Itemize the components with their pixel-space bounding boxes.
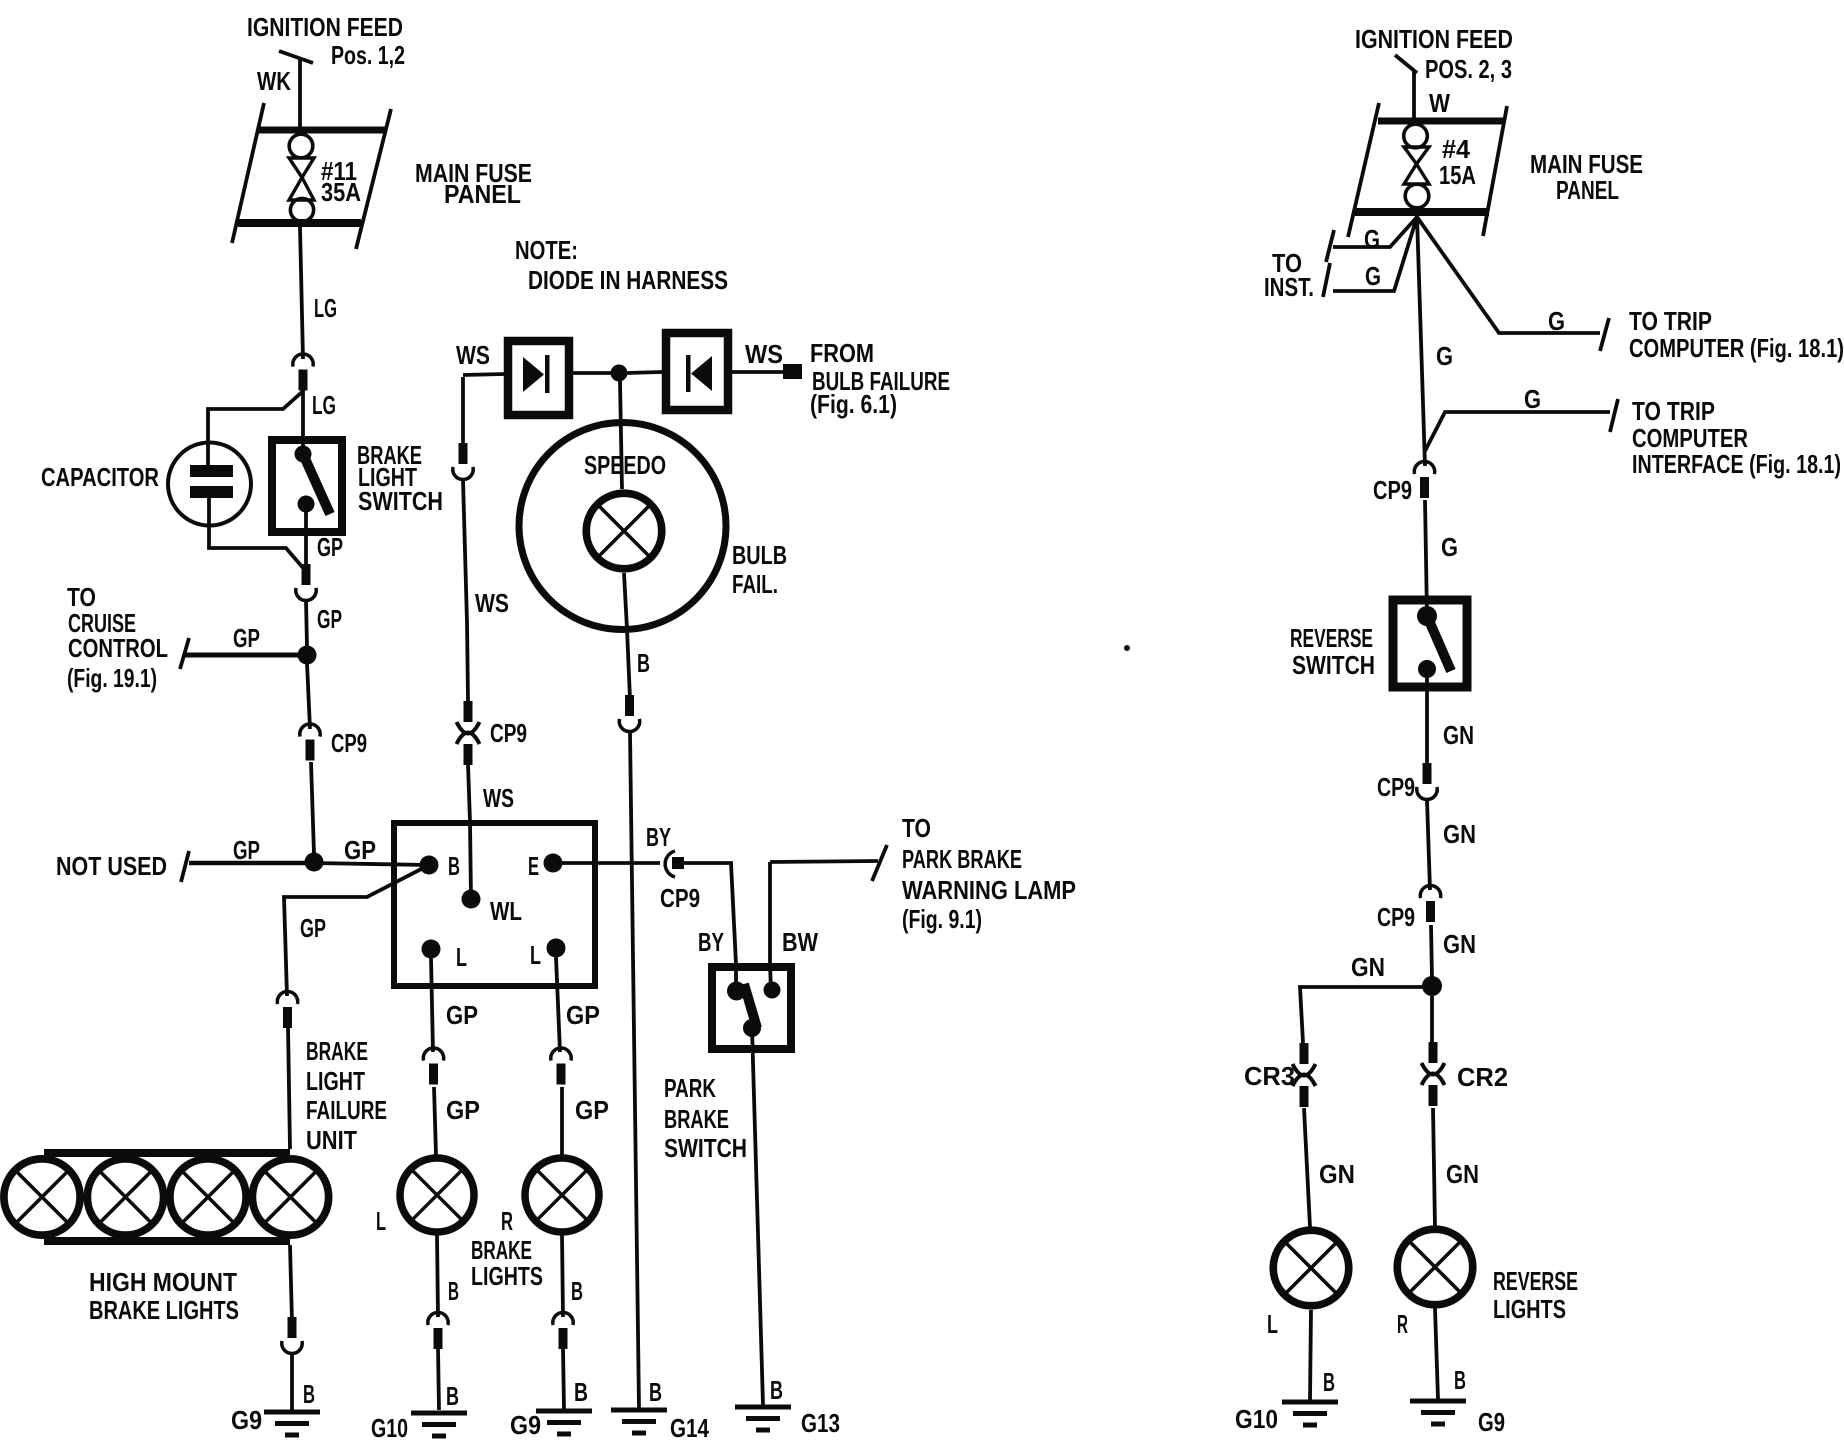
svg-text:G9: G9 bbox=[1478, 1407, 1505, 1437]
svg-text:CR3: CR3 bbox=[1244, 1061, 1295, 1091]
svg-text:DIODE IN HARNESS: DIODE IN HARNESS bbox=[528, 265, 728, 295]
svg-text:B: B bbox=[574, 1377, 588, 1407]
svg-text:G: G bbox=[1364, 224, 1380, 254]
svg-text:GP: GP bbox=[317, 532, 343, 562]
svg-text:FAIL.: FAIL. bbox=[732, 569, 778, 599]
svg-text:GN: GN bbox=[1443, 929, 1476, 959]
svg-text:SPEEDO: SPEEDO bbox=[584, 450, 666, 480]
svg-text:LIGHTS: LIGHTS bbox=[1493, 1294, 1566, 1324]
svg-text:G10: G10 bbox=[371, 1413, 408, 1440]
svg-text:COMPUTER (Fig. 18.1): COMPUTER (Fig. 18.1) bbox=[1629, 333, 1844, 363]
svg-text:REVERSE: REVERSE bbox=[1493, 1266, 1578, 1296]
svg-text:GN: GN bbox=[1443, 819, 1476, 849]
svg-text:NOTE:: NOTE: bbox=[515, 235, 578, 265]
svg-text:WS: WS bbox=[456, 340, 490, 370]
svg-text:GP: GP bbox=[575, 1095, 609, 1125]
svg-text:GN: GN bbox=[1443, 720, 1474, 750]
svg-text:INTERFACE (Fig. 18.1): INTERFACE (Fig. 18.1) bbox=[1632, 449, 1841, 479]
svg-text:G14: G14 bbox=[670, 1413, 709, 1440]
svg-text:B: B bbox=[770, 1375, 783, 1405]
svg-text:LG: LG bbox=[312, 390, 336, 420]
svg-text:B: B bbox=[1323, 1367, 1335, 1397]
svg-text:GP: GP bbox=[233, 835, 260, 865]
svg-text:L: L bbox=[1267, 1309, 1278, 1339]
svg-text:R: R bbox=[501, 1206, 513, 1236]
svg-text:BY: BY bbox=[646, 822, 671, 852]
svg-text:TO TRIP: TO TRIP bbox=[1629, 306, 1712, 336]
svg-text:G10: G10 bbox=[1235, 1404, 1278, 1434]
svg-text:PANEL: PANEL bbox=[1556, 175, 1619, 205]
svg-text:IGNITION FEED: IGNITION FEED bbox=[1355, 24, 1513, 54]
svg-text:L: L bbox=[530, 940, 541, 970]
svg-text:POS. 2, 3: POS. 2, 3 bbox=[1425, 54, 1512, 84]
svg-text:W: W bbox=[1429, 88, 1450, 118]
svg-text:CR2: CR2 bbox=[1457, 1062, 1508, 1092]
svg-text:G: G bbox=[1548, 306, 1565, 336]
svg-text:BW: BW bbox=[782, 927, 818, 957]
svg-text:B: B bbox=[303, 1379, 315, 1409]
svg-text:B: B bbox=[448, 1276, 459, 1306]
svg-text:CP9: CP9 bbox=[1373, 475, 1412, 505]
svg-text:GN: GN bbox=[1319, 1159, 1355, 1189]
svg-text:Pos. 1,2: Pos. 1,2 bbox=[331, 40, 405, 70]
svg-text:CONTROL: CONTROL bbox=[68, 633, 168, 663]
svg-text:B: B bbox=[446, 1381, 459, 1411]
svg-text:BRAKE: BRAKE bbox=[306, 1036, 368, 1066]
svg-text:B: B bbox=[637, 648, 650, 678]
svg-text:GP: GP bbox=[566, 1000, 600, 1030]
svg-text:L: L bbox=[376, 1206, 386, 1236]
svg-text:L: L bbox=[456, 942, 467, 972]
svg-text:CP9: CP9 bbox=[1377, 902, 1415, 932]
svg-text:LIGHTS: LIGHTS bbox=[471, 1261, 543, 1291]
svg-text:GP: GP bbox=[446, 1095, 480, 1125]
svg-text:INST.: INST. bbox=[1264, 272, 1314, 302]
svg-text:CP9: CP9 bbox=[1377, 772, 1415, 802]
svg-text:LG: LG bbox=[314, 293, 337, 323]
svg-text:(Fig. 19.1): (Fig. 19.1) bbox=[67, 663, 157, 693]
svg-text:15A: 15A bbox=[1439, 160, 1476, 190]
svg-text:BY: BY bbox=[698, 927, 724, 957]
svg-text:BULB: BULB bbox=[732, 540, 787, 570]
svg-text:WK: WK bbox=[257, 66, 291, 96]
svg-text:WS: WS bbox=[475, 588, 509, 618]
svg-text:E: E bbox=[528, 851, 539, 881]
svg-text:WS: WS bbox=[483, 783, 514, 813]
svg-text:GP: GP bbox=[233, 623, 260, 653]
svg-text:G13: G13 bbox=[801, 1408, 840, 1438]
svg-text:GP: GP bbox=[344, 835, 376, 865]
svg-text:35A: 35A bbox=[321, 177, 361, 207]
svg-text:SWITCH: SWITCH bbox=[358, 486, 443, 516]
svg-text:WARNING LAMP: WARNING LAMP bbox=[902, 875, 1076, 905]
svg-text:IGNITION FEED: IGNITION FEED bbox=[247, 12, 403, 42]
svg-text:CP9: CP9 bbox=[490, 718, 527, 748]
svg-text:SWITCH: SWITCH bbox=[664, 1133, 747, 1163]
svg-text:G: G bbox=[1436, 341, 1453, 371]
svg-text:G9: G9 bbox=[510, 1410, 541, 1440]
svg-text:FROM: FROM bbox=[810, 338, 874, 368]
svg-text:UNIT: UNIT bbox=[306, 1125, 357, 1155]
svg-text:(Fig. 6.1): (Fig. 6.1) bbox=[810, 389, 897, 419]
svg-text:GP: GP bbox=[446, 1000, 478, 1030]
svg-text:GN: GN bbox=[1446, 1159, 1479, 1189]
svg-text:GN: GN bbox=[1351, 952, 1385, 982]
svg-text:R: R bbox=[1397, 1309, 1408, 1339]
svg-text:FAILURE: FAILURE bbox=[306, 1095, 387, 1125]
svg-text:(Fig. 9.1): (Fig. 9.1) bbox=[902, 904, 982, 934]
svg-text:TO: TO bbox=[902, 813, 931, 843]
svg-text:B: B bbox=[649, 1377, 662, 1407]
svg-text:CP9: CP9 bbox=[331, 728, 367, 758]
svg-text:PANEL: PANEL bbox=[444, 179, 521, 209]
svg-text:CAPACITOR: CAPACITOR bbox=[41, 462, 159, 492]
svg-text:LIGHT: LIGHT bbox=[306, 1066, 365, 1096]
svg-text:B: B bbox=[1454, 1365, 1466, 1395]
svg-text:GP: GP bbox=[300, 913, 326, 943]
svg-text:B: B bbox=[448, 851, 460, 881]
svg-text:G: G bbox=[1365, 261, 1381, 291]
svg-text:G: G bbox=[1441, 532, 1458, 562]
svg-text:PARK: PARK bbox=[664, 1073, 716, 1103]
svg-text:G9: G9 bbox=[231, 1405, 262, 1435]
svg-text:B: B bbox=[571, 1276, 583, 1306]
svg-text:G: G bbox=[1524, 384, 1541, 414]
svg-text:NOT USED: NOT USED bbox=[56, 851, 167, 881]
svg-text:BRAKE LIGHTS: BRAKE LIGHTS bbox=[89, 1295, 239, 1325]
svg-text:SWITCH: SWITCH bbox=[1292, 650, 1375, 680]
svg-text:PARK BRAKE: PARK BRAKE bbox=[902, 844, 1022, 874]
svg-text:BRAKE: BRAKE bbox=[664, 1104, 729, 1134]
svg-text:WL: WL bbox=[490, 896, 522, 926]
svg-text:REVERSE: REVERSE bbox=[1290, 623, 1373, 653]
svg-text:CP9: CP9 bbox=[660, 883, 700, 913]
svg-text:HIGH MOUNT: HIGH MOUNT bbox=[89, 1267, 237, 1297]
svg-text:TO TRIP: TO TRIP bbox=[1632, 396, 1715, 426]
svg-text:WS: WS bbox=[745, 339, 783, 369]
svg-text:GP: GP bbox=[317, 604, 342, 634]
